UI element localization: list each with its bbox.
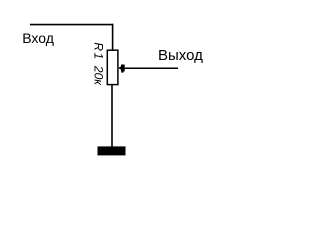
svg-text:R1: R1 bbox=[91, 42, 105, 60]
wiper arrow lower nub bbox=[121, 71, 123, 72]
wire: resistor bottom to ground bbox=[111, 84, 113, 147]
wire: vertical from corner to resistor top bbox=[112, 24, 114, 51]
wiper arrow of potentiometer R1 bbox=[118, 65, 125, 72]
svg-text:Вход: Вход bbox=[22, 30, 54, 46]
wire: input horizontal segment bbox=[30, 24, 113, 26]
svg-text:Выход: Выход bbox=[158, 47, 203, 64]
resistor R1 (potentiometer body) bbox=[107, 50, 118, 84]
svg-text:20к: 20к bbox=[91, 65, 105, 86]
ground bbox=[98, 146, 126, 155]
wire: wiper output horizontal segment bbox=[124, 67, 178, 69]
